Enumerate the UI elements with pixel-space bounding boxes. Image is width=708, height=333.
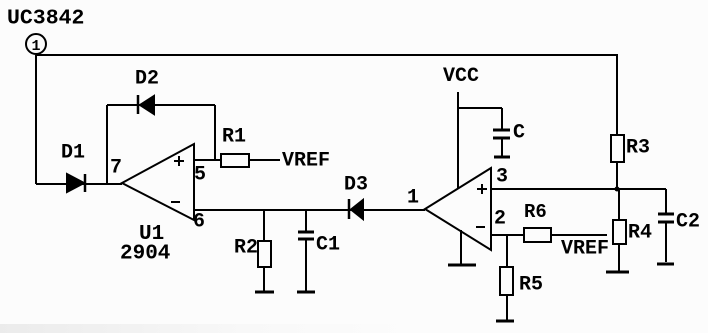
ground below R2 <box>255 291 274 294</box>
wire feedback loop top horizontal <box>107 104 215 106</box>
capacitor C1 <box>298 210 340 291</box>
svg-text:6: 6 <box>193 211 205 234</box>
wire feedback loop left vertical <box>106 105 108 184</box>
capacitor C2 <box>658 189 700 262</box>
svg-text:D1: D1 <box>61 142 85 165</box>
resistor R2 <box>234 210 271 292</box>
svg-text:C: C <box>513 122 525 145</box>
diode D1 <box>61 142 85 193</box>
resistor R4 <box>613 189 652 271</box>
svg-text:C2: C2 <box>676 211 700 234</box>
svg-text:R2: R2 <box>234 237 258 260</box>
wire pin3 horizontal to C2 <box>491 188 666 190</box>
svg-text:UC3842: UC3842 <box>7 7 84 31</box>
ground below C1 <box>297 291 315 294</box>
svg-text:2: 2 <box>494 208 506 231</box>
resistor R1 <box>221 126 249 168</box>
wire left vertical from node 1 to D1 <box>35 55 37 184</box>
wire pin6 long horizontal to U2 apex <box>194 209 425 211</box>
svg-text:R1: R1 <box>222 126 246 149</box>
svg-text:R4: R4 <box>628 222 652 245</box>
svg-text:VREF: VREF <box>282 150 330 173</box>
svg-text:7: 7 <box>110 157 122 180</box>
wire R1 to VREF <box>249 159 280 161</box>
ground below R5 <box>496 320 514 323</box>
op-amp U2 <box>425 168 491 250</box>
svg-text:VCC: VCC <box>443 65 479 88</box>
diode D2 <box>135 68 159 115</box>
wire U2 ground lead <box>460 230 462 264</box>
svg-text:5: 5 <box>194 164 206 187</box>
svg-text:D3: D3 <box>344 174 368 197</box>
svg-text:VREF: VREF <box>561 238 609 261</box>
svg-text:2904: 2904 <box>120 243 170 266</box>
op-amp U1 <box>120 144 194 266</box>
svg-text:R3: R3 <box>626 137 650 160</box>
junction R3 R4 pin3 <box>615 187 620 192</box>
svg-text:R5: R5 <box>519 274 543 297</box>
resistor R5 <box>500 235 543 320</box>
wire R6 to VREF <box>551 234 607 236</box>
wire VCC vertical into U2 top <box>457 92 459 188</box>
wire pin2 to R6 <box>491 234 524 236</box>
node 1 label UC3842 <box>7 7 84 31</box>
svg-text:C1: C1 <box>316 234 340 257</box>
svg-text:D2: D2 <box>135 68 159 91</box>
resistor R3 <box>611 135 650 189</box>
resistor R6 <box>524 201 551 242</box>
wire pin7 horizontal to U1 apex <box>36 183 122 185</box>
svg-text:1: 1 <box>31 38 40 55</box>
wire VCC branch to C <box>458 107 502 109</box>
ground below R4 <box>606 271 629 274</box>
ground below U2 <box>448 264 476 267</box>
ground below C2 <box>657 263 674 266</box>
diode D3 <box>344 174 368 220</box>
node pin-1 circle <box>26 34 46 55</box>
wire feedback loop right vertical to pin5 <box>214 105 216 160</box>
svg-text:3: 3 <box>496 166 508 189</box>
wire top horizontal from node 1 to R3 <box>36 55 617 135</box>
wire pin5 to R1 <box>194 159 221 161</box>
svg-text:1: 1 <box>407 187 419 210</box>
capacitor C <box>493 108 525 157</box>
svg-text:R6: R6 <box>524 201 547 223</box>
scan artifact band bottom left <box>0 324 420 333</box>
